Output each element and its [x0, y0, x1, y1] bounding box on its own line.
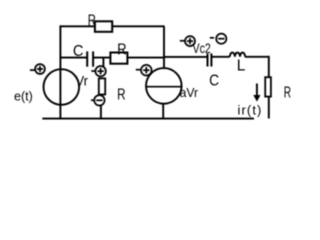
svg-text:C: C [73, 43, 84, 60]
svg-text:Vc2: Vc2 [193, 40, 211, 56]
svg-text:aVr: aVr [180, 85, 199, 100]
svg-text:R: R [88, 12, 96, 29]
svg-text:L: L [237, 57, 246, 74]
svg-text:e(t): e(t) [14, 89, 33, 103]
svg-text:C: C [209, 73, 219, 90]
svg-text:R: R [284, 84, 291, 101]
svg-text:Vr: Vr [76, 72, 89, 88]
svg-text:R: R [117, 41, 126, 58]
svg-text:ir(t): ir(t) [238, 102, 263, 117]
svg-text:R: R [117, 86, 125, 103]
